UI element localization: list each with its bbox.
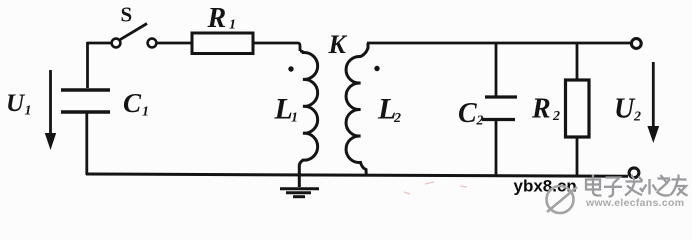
svg-text:1: 1 [142, 105, 149, 120]
svg-text:2: 2 [552, 109, 560, 124]
ground symbol [280, 189, 319, 197]
svg-text:2: 2 [476, 114, 484, 129]
svg-text:C: C [458, 98, 477, 129]
inductor L1 (primary coil, bumps bulge right) [299, 51, 317, 176]
terminal top right [631, 39, 641, 49]
polarity dot L2 [374, 66, 379, 71]
watermark logo circle (elecfans) [547, 186, 578, 213]
resistor R2 [566, 43, 590, 176]
resistor R1 [192, 33, 253, 54]
svg-text:1: 1 [229, 18, 236, 33]
glyph dian [586, 175, 602, 196]
svg-text:2: 2 [633, 110, 641, 125]
capacitor C2 [482, 43, 517, 176]
arrow U1 (voltage direction) [45, 70, 56, 150]
glyph you [671, 175, 688, 196]
ground stub [298, 176, 301, 187]
arrow U2 (voltage direction) [647, 62, 659, 143]
svg-text:S: S [121, 3, 133, 27]
wire switch to R1 [157, 42, 192, 45]
wire R1 to L1 [253, 43, 300, 51]
watermark Chinese glyphs 电子发烧友 (approximated strokes) [586, 175, 688, 197]
svg-text:R: R [531, 94, 551, 125]
polarity dot L1 [288, 66, 293, 71]
svg-text:www.elecfans.com: www.elecfans.com [585, 197, 684, 209]
wire left vertical upper (to C1 top plate) [86, 42, 89, 88]
glyph zi [604, 178, 622, 197]
wire L2 to output terminal (top right rail) [367, 42, 631, 45]
wire top-left from corner to switch [87, 42, 111, 45]
svg-text:R: R [207, 3, 227, 34]
svg-text:1: 1 [25, 104, 32, 119]
faint pink scan specks [404, 182, 467, 194]
svg-text:ybx8.cn: ybx8.cn [514, 177, 577, 196]
bottom rail wire [86, 174, 628, 176]
glyph shao [643, 175, 671, 196]
svg-text:1: 1 [291, 111, 298, 126]
svg-text:2: 2 [393, 111, 401, 126]
glyph fa [625, 175, 643, 196]
capacitor C1 [61, 90, 110, 112]
svg-text:K: K [328, 30, 348, 59]
svg-text:U: U [6, 90, 26, 117]
svg-text:L: L [274, 93, 293, 126]
wire C1 bottom to bottom rail [85, 114, 88, 176]
svg-text:U: U [614, 94, 636, 125]
inductor L2 (secondary coil, bumps bulge left) [346, 43, 368, 176]
svg-text:C: C [123, 88, 142, 118]
switch S [112, 24, 157, 48]
terminal bottom right [629, 168, 639, 178]
